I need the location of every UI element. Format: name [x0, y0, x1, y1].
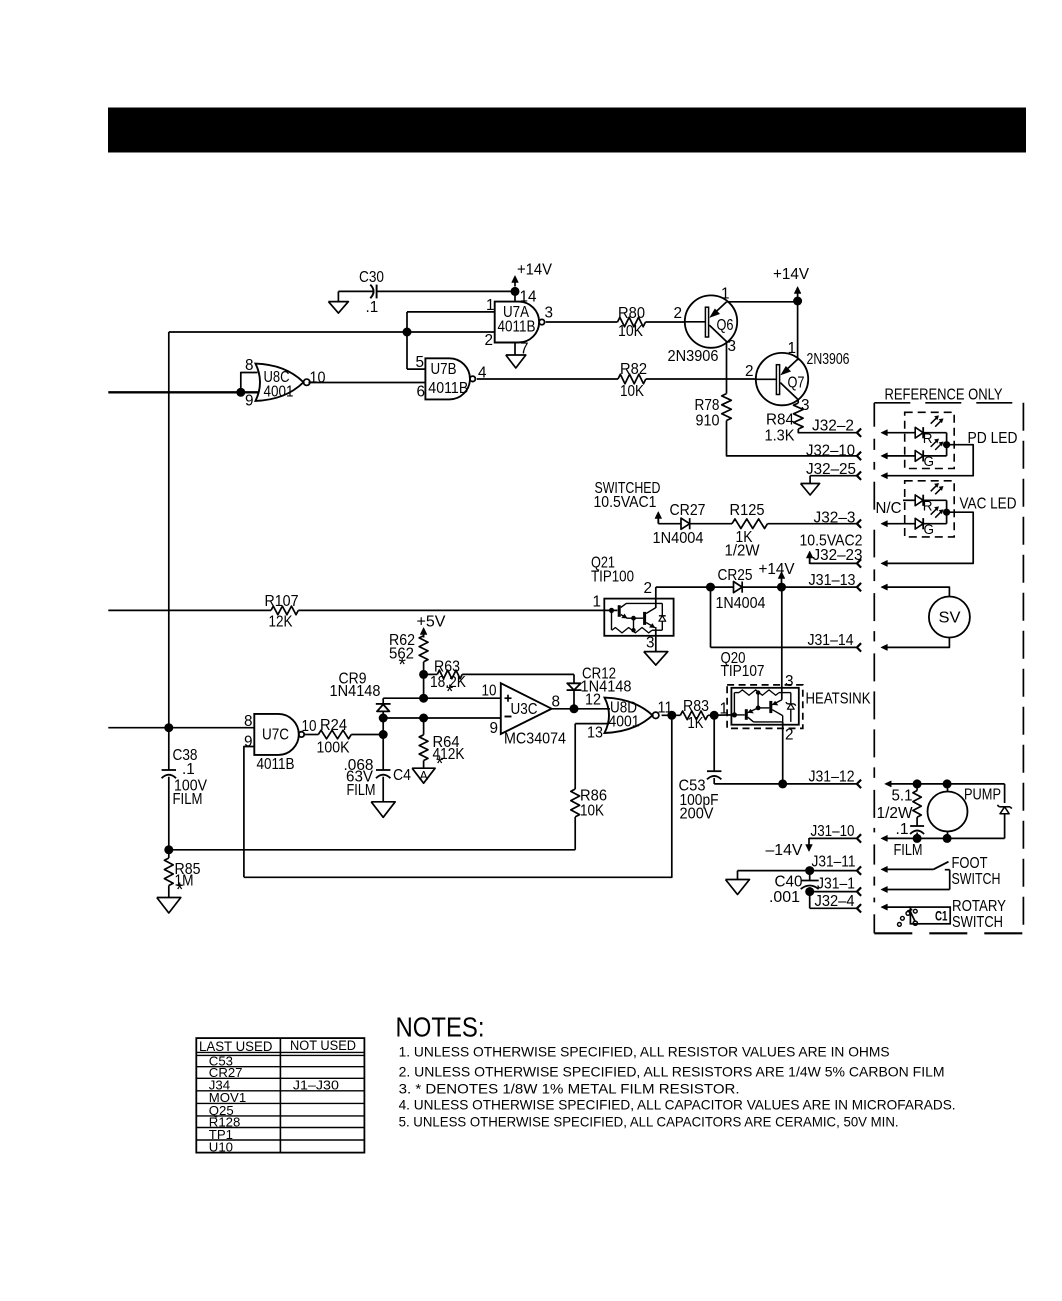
svg-text:1K: 1K [688, 715, 705, 732]
svg-text:10: 10 [310, 370, 326, 387]
Q21 pin3 ground [655, 630, 657, 651]
gate U7B (4011B) [425, 358, 470, 399]
gate U7C (4011B) [254, 714, 298, 755]
svg-text:5.1: 5.1 [892, 788, 913, 805]
svg-text:9: 9 [244, 734, 253, 751]
resistor R63 [437, 670, 462, 679]
svg-text:ROTARY: ROTARY [952, 898, 1006, 915]
svg-text:1.3K: 1.3K [765, 428, 796, 445]
svg-text:.1: .1 [366, 299, 379, 316]
ground (R85) [168, 886, 170, 898]
node [419, 714, 428, 723]
svg-text:8: 8 [245, 357, 254, 374]
net J31-14 [710, 587, 712, 647]
rotary switch C1 [885, 906, 911, 908]
svg-text:2: 2 [745, 363, 754, 380]
node [710, 711, 719, 720]
capacitor .1 FILM [916, 817, 918, 826]
svg-text:4. UNLESS OTHERWISE SPECIFI: 4. UNLESS OTHERWISE SPECIFIED, ALL CAPAC… [399, 1097, 956, 1112]
led R (PD) [885, 432, 915, 434]
wire [646, 378, 756, 380]
svg-text:J32–2: J32–2 [812, 418, 854, 435]
svg-text:PD LED: PD LED [968, 430, 1018, 447]
svg-text:+5V: +5V [417, 614, 447, 631]
ground (R64, analog) [423, 761, 425, 769]
wire pin13 [575, 723, 609, 725]
transistor Q6 2N3906 [685, 295, 737, 347]
node [943, 779, 952, 788]
svg-text:U7B: U7B [431, 361, 457, 378]
svg-text:200V: 200V [680, 806, 715, 823]
wire [768, 523, 857, 525]
svg-text:R80: R80 [618, 305, 645, 322]
op-amp U3C MC34074 [501, 683, 552, 734]
svg-text:10K: 10K [620, 383, 645, 400]
net J31-10 -14V [809, 837, 857, 839]
node +14V [793, 297, 802, 306]
svg-text:2: 2 [644, 580, 653, 597]
wire [797, 302, 799, 361]
svg-text:9: 9 [490, 720, 499, 737]
svg-text:J31–13: J31–13 [809, 572, 856, 589]
svg-text:–14V: –14V [766, 842, 804, 859]
capacitor C53 [713, 715, 715, 771]
wire [798, 429, 857, 433]
wire (input bus) [108, 391, 258, 393]
svg-text:2N3906: 2N3906 [668, 348, 719, 365]
wire pin2 [169, 331, 495, 333]
svg-text:6: 6 [417, 384, 426, 401]
net R107 input [108, 609, 271, 611]
wire U7B out to R82 [477, 378, 618, 380]
led G (VAC) [885, 523, 915, 525]
node [913, 834, 922, 843]
wire [726, 301, 797, 303]
svg-text:J32–10: J32–10 [806, 443, 855, 460]
svg-text:FILM: FILM [347, 782, 376, 799]
node [379, 714, 388, 723]
resistor R84 [797, 399, 799, 403]
svg-text:J32–3: J32–3 [814, 510, 856, 527]
wire [646, 321, 685, 323]
svg-text:12: 12 [585, 692, 601, 709]
svg-text:J32–25: J32–25 [806, 461, 856, 478]
svg-text:+14V: +14V [517, 262, 553, 279]
svg-text:1: 1 [593, 594, 602, 611]
Q20 pin2 wire [782, 722, 784, 784]
svg-text:C1: C1 [935, 909, 948, 924]
led R (VAC) [903, 499, 915, 501]
svg-text:TIP107: TIP107 [721, 663, 765, 680]
resistor R78 [726, 342, 728, 394]
capacitor C38 [162, 769, 176, 771]
ground (C4) [382, 777, 384, 802]
title bar [108, 108, 1026, 153]
wire [351, 734, 383, 736]
svg-text:R107: R107 [265, 593, 299, 610]
svg-text:3: 3 [728, 338, 737, 355]
resistor R83 [662, 714, 681, 716]
svg-text:2. UNLESS OTHERWISE SPECIFI: 2. UNLESS OTHERWISE SPECIFIED, ALL RESIS… [399, 1065, 945, 1080]
wire common [946, 433, 948, 456]
node [379, 730, 388, 739]
PD LED assembly [905, 412, 955, 468]
svg-text:FOOT: FOOT [952, 855, 988, 872]
resistor R64 [423, 718, 425, 735]
svg-text:U7C: U7C [262, 727, 289, 744]
svg-text:4011B: 4011B [257, 756, 295, 773]
svg-text:.001: .001 [769, 889, 800, 906]
svg-text:2: 2 [785, 727, 794, 744]
wire pin5 [407, 368, 425, 370]
wire pump bottom J31-10 [884, 837, 1005, 839]
svg-text:R24: R24 [320, 717, 347, 734]
pump motor circle [928, 792, 968, 832]
ground (C30) [337, 291, 339, 301]
svg-text:2N3906: 2N3906 [807, 351, 850, 368]
net J31-11 ground [738, 870, 857, 872]
node [419, 694, 428, 703]
svg-text:HEATSINK: HEATSINK [806, 691, 872, 708]
vertical left rail [168, 332, 170, 770]
node [403, 328, 412, 337]
svg-text:PUMP: PUMP [964, 787, 1001, 804]
svg-text:3: 3 [801, 397, 810, 414]
svg-text:1/2W: 1/2W [877, 805, 914, 822]
svg-text:1N4148: 1N4148 [330, 683, 381, 700]
svg-text:VAC LED: VAC LED [960, 496, 1017, 513]
svg-text:1/2W: 1/2W [725, 543, 761, 560]
svg-text:4001: 4001 [264, 384, 294, 401]
net J31-1 [810, 891, 857, 893]
wire [708, 714, 734, 716]
node +14V (U7A pin 14) [511, 287, 520, 296]
svg-text:R83: R83 [683, 698, 709, 715]
svg-text:NOTES:: NOTES: [396, 1012, 485, 1043]
svg-text:3. * DENOTES 1/8W 1% META: 3. * DENOTES 1/8W 1% METAL FILM RESISTOR… [399, 1081, 740, 1096]
resistor R85 [164, 858, 173, 886]
gate U7A (4011B) [495, 302, 539, 343]
connector J32-25 to ground [810, 475, 857, 477]
node [777, 583, 786, 592]
node [943, 834, 952, 843]
svg-text:SWITCH: SWITCH [952, 871, 1001, 888]
svg-text:J31–14: J31–14 [808, 632, 854, 649]
svg-text:LAST USED: LAST USED [199, 1039, 273, 1054]
svg-text:NOT USED: NOT USED [290, 1038, 356, 1053]
svg-text:J31–11: J31–11 [812, 854, 856, 871]
svg-text:5. UNLESS OTHERWISE SPECIFI: 5. UNLESS OTHERWISE SPECIFIED, ALL CAPAC… [399, 1114, 899, 1129]
wire +in [383, 697, 501, 699]
svg-text:100K: 100K [317, 740, 351, 757]
svg-text:R78: R78 [695, 397, 720, 414]
svg-text:4011B: 4011B [498, 319, 536, 336]
svg-text:13: 13 [587, 725, 603, 742]
svg-text:12K: 12K [269, 614, 294, 631]
wire U7A out to R80 [546, 321, 618, 323]
wire U8C out [309, 382, 426, 384]
svg-text:R84: R84 [766, 412, 794, 429]
svg-text:10: 10 [482, 683, 497, 700]
resistor R125 [732, 519, 768, 529]
svg-text:9: 9 [245, 393, 254, 410]
resistor R24 [305, 734, 319, 736]
wire [377, 290, 515, 292]
node [706, 583, 715, 592]
last used / not used table [196, 1038, 364, 1153]
node [667, 711, 676, 720]
diode CR27 1N4004 [681, 518, 690, 529]
svg-text:*: * [399, 655, 407, 676]
svg-text:A: A [420, 769, 429, 783]
node [778, 779, 787, 788]
node [913, 779, 922, 788]
svg-text:R82: R82 [620, 361, 647, 378]
svg-text:1N4004: 1N4004 [653, 530, 704, 547]
node [419, 670, 428, 679]
wire [406, 312, 408, 369]
svg-text:R63: R63 [434, 659, 460, 676]
svg-text:3: 3 [785, 673, 794, 690]
svg-text:*: * [436, 754, 444, 775]
Q20 pin3 wire [781, 587, 783, 700]
node [236, 388, 245, 397]
node [570, 704, 579, 713]
wire U3C out [552, 708, 610, 710]
svg-text:+14V: +14V [759, 561, 796, 578]
svg-text:J31–12: J31–12 [809, 769, 855, 786]
pump assembly [889, 783, 1005, 785]
ground (C40) [726, 880, 750, 895]
wire feedback R86 bottom [169, 849, 575, 851]
resistor R82 [618, 374, 646, 384]
node [164, 723, 173, 732]
svg-text:*: * [446, 682, 454, 703]
svg-text:1N4004: 1N4004 [716, 595, 766, 612]
svg-text:J32–23: J32–23 [813, 547, 863, 564]
wire to CR12 [462, 673, 574, 675]
svg-text:CR27: CR27 [670, 502, 706, 519]
svg-text:10K: 10K [580, 803, 605, 820]
svg-text:3: 3 [646, 635, 655, 652]
wire pin1 [407, 311, 495, 313]
svg-text:3: 3 [545, 305, 554, 322]
resistor R86 [574, 724, 576, 789]
svg-text:2: 2 [674, 305, 683, 322]
diode CR12 1N4148 [573, 674, 575, 683]
gate U8D (4001) [605, 698, 653, 733]
resistor 5.1 1/2W [913, 791, 921, 818]
resistor R62 [419, 636, 428, 662]
svg-text:10: 10 [302, 718, 317, 735]
wire [727, 421, 857, 456]
svg-text:SWITCH: SWITCH [952, 914, 1003, 931]
led G (PD) [885, 455, 915, 457]
svg-text:4011B: 4011B [428, 380, 468, 397]
svg-text:SV: SV [939, 610, 961, 627]
svg-text:U10: U10 [209, 1139, 233, 1154]
svg-text:MC34074: MC34074 [504, 731, 566, 748]
diode CR25 1N4004 [734, 582, 743, 593]
wire common [946, 500, 948, 523]
resistor R80 [618, 317, 646, 327]
svg-text:U3C: U3C [511, 701, 538, 718]
svg-text:1. UNLESS OTHERWISE SPECIFI: 1. UNLESS OTHERWISE SPECIFIED, ALL RESIS… [399, 1045, 890, 1060]
svg-text:1: 1 [788, 340, 797, 357]
capacitor C40 [805, 866, 814, 875]
svg-text:FILM: FILM [894, 842, 923, 859]
svg-text:FILM: FILM [173, 791, 203, 808]
svg-text:J31–10: J31–10 [811, 823, 855, 840]
wire U7C in [108, 727, 254, 729]
svg-text:CR25: CR25 [718, 567, 753, 584]
net J31-12 [714, 783, 857, 785]
net J31-13 +14V [656, 586, 734, 588]
capacitor C30 [370, 285, 373, 299]
svg-text:N/C: N/C [876, 500, 902, 517]
svg-text:C40: C40 [775, 874, 803, 891]
wire [690, 523, 732, 525]
svg-text:10K: 10K [618, 323, 644, 340]
zener diode [1004, 784, 1006, 803]
connector J32-23 [809, 554, 811, 564]
svg-text:J32–4: J32–4 [815, 893, 855, 910]
svg-text:.1: .1 [182, 761, 195, 778]
gate U8C (4001) [256, 364, 304, 401]
wire feedback U8D to U7C [244, 715, 672, 877]
foot switch [885, 868, 933, 870]
VAC LED assembly [905, 481, 955, 537]
svg-text:+14V: +14V [773, 266, 810, 283]
wire [338, 290, 373, 292]
transistor Q7 2N3906 [756, 353, 808, 405]
svg-text:J31–1: J31–1 [817, 876, 855, 893]
wire [298, 609, 617, 611]
svg-text:TIP100: TIP100 [591, 569, 634, 586]
svg-text:.1: .1 [896, 821, 909, 838]
svg-text:Q6: Q6 [717, 317, 734, 334]
svg-text:C30: C30 [359, 269, 384, 286]
svg-text:REFERENCE ONLY: REFERENCE ONLY [885, 387, 1003, 404]
svg-text:C4: C4 [393, 767, 411, 784]
wire pin9 [244, 747, 254, 878]
solenoid valve SV [929, 597, 970, 638]
Q21 pin2 wire [655, 587, 657, 608]
net J32-4 [809, 892, 811, 909]
svg-text:Q7: Q7 [788, 375, 805, 392]
capacitor C4 [382, 735, 384, 771]
resistor R107 [271, 606, 298, 615]
svg-text:10.5VAC1: 10.5VAC1 [594, 494, 657, 511]
svg-text:R125: R125 [730, 502, 765, 519]
wire -in [383, 717, 501, 719]
svg-text:2: 2 [485, 332, 494, 349]
node [164, 845, 173, 854]
svg-text:J1–J30: J1–J30 [293, 1078, 339, 1093]
wire pin8 [241, 373, 258, 393]
svg-text:4001: 4001 [609, 714, 640, 731]
svg-text:1: 1 [721, 286, 730, 303]
svg-text:910: 910 [696, 413, 720, 430]
